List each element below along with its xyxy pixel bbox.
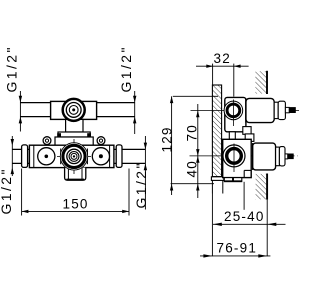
svg-text:G1/2": G1/2" <box>118 45 134 92</box>
dimension 76-91 <box>200 254 270 257</box>
cartridge clamp right <box>86 149 88 165</box>
lower spline tip <box>288 154 294 160</box>
valve body <box>29 145 114 167</box>
svg-text:40: 40 <box>185 160 200 177</box>
upper stem <box>285 107 289 112</box>
top valve neck <box>66 119 83 132</box>
plate face extension <box>211 194 213 257</box>
svg-text:70: 70 <box>185 124 200 141</box>
dimension 150 <box>22 169 129 216</box>
svg-text:32: 32 <box>214 51 231 66</box>
wall face extension <box>266 200 268 257</box>
lower port circle <box>223 144 245 173</box>
body bottom extension <box>243 182 245 210</box>
lower centerline <box>190 155 298 157</box>
dimension G1/2 top-right line <box>133 91 136 134</box>
foot left <box>224 178 232 182</box>
dimension G1/2 top-left line <box>19 91 22 132</box>
plate foot <box>211 177 223 181</box>
upper port circle <box>224 100 243 127</box>
top valve knob <box>63 99 85 121</box>
ext line bottom <box>171 183 214 185</box>
dimension 70-40 line <box>196 104 199 198</box>
svg-text:25-40: 25-40 <box>224 209 265 224</box>
bolt left <box>57 133 61 137</box>
left pipe nut <box>22 145 28 168</box>
mounting plate (hatched) <box>212 85 221 177</box>
svg-text:G1/2": G1/2" <box>4 45 20 92</box>
upper collar <box>274 102 278 118</box>
upper spline tip <box>289 107 296 113</box>
wire bottom pipe <box>12 149 145 163</box>
upper side lug <box>243 127 251 135</box>
lower cartridge cylinder <box>253 143 276 170</box>
dimension G1/2 bottom-right line <box>144 136 147 210</box>
lower stem <box>285 154 288 159</box>
top valve flange <box>58 132 90 137</box>
right pipe nut <box>116 145 122 168</box>
wall section upper <box>255 71 267 94</box>
lower valve body <box>223 139 252 177</box>
lower knob <box>279 147 285 166</box>
left side circle <box>38 148 55 165</box>
plate lower lines <box>212 180 222 193</box>
dimension 25-40 <box>213 223 286 226</box>
right side circle <box>92 148 109 165</box>
lower body step <box>244 170 251 177</box>
cartridge clamp left <box>60 149 62 165</box>
outlet <box>65 168 86 181</box>
svg-text:G1/2": G1/2" <box>0 167 14 214</box>
lower inlet lug <box>245 134 254 142</box>
dimension 129 <box>170 96 173 195</box>
wire top pipe <box>20 103 134 117</box>
upper valve body <box>225 97 246 131</box>
upper knob <box>278 101 285 119</box>
crosshair main knob <box>57 139 91 174</box>
subplate <box>55 137 93 145</box>
svg-text:129: 129 <box>160 126 175 152</box>
dimension 32 <box>196 64 249 97</box>
svg-text:150: 150 <box>63 197 89 212</box>
svg-text:76-91: 76-91 <box>217 241 258 256</box>
foot right <box>233 178 241 182</box>
main knob <box>60 143 87 170</box>
upper stem-down <box>229 132 235 140</box>
wall section lower <box>256 174 268 200</box>
ear right <box>97 137 105 145</box>
ear left <box>43 137 51 145</box>
svg-text:G1/2": G1/2" <box>133 161 149 208</box>
dimension G1/2 bottom-left line <box>11 136 14 176</box>
ext line top <box>173 95 218 97</box>
upper cartridge cylinder <box>246 98 274 122</box>
upper centerline <box>191 109 300 111</box>
top valve housing <box>51 101 97 119</box>
bolt right <box>87 133 91 137</box>
lower collar <box>276 147 280 166</box>
